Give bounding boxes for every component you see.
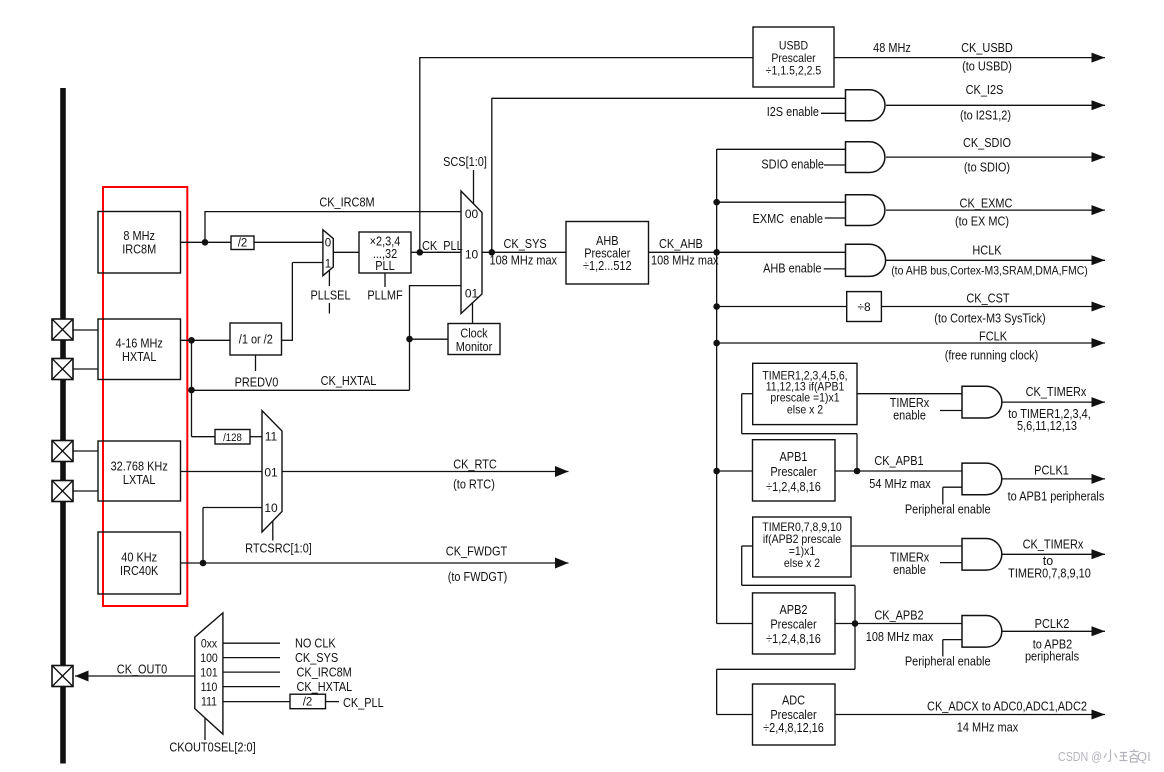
svg-text:Prescaler: Prescaler [770, 465, 816, 479]
svg-text:RTCSRC[1:0]: RTCSRC[1:0] [245, 542, 312, 556]
wire CK_ADCX [835, 714, 1105, 716]
svg-text:÷1,2...512: ÷1,2...512 [583, 259, 632, 273]
divider PREDV0 (/1 or /2) [230, 323, 282, 355]
wire HXTAL output [181, 339, 231, 341]
arrow PCLK2 [1092, 626, 1106, 636]
junction EXMC feed [713, 199, 720, 206]
wire CK_SYS riser to I2S gate [491, 98, 493, 252]
wire CK_USBD [834, 57, 1105, 59]
block APB1 Prescaler [753, 440, 836, 501]
junction CST feed [713, 303, 720, 310]
svg-text:100: 100 [200, 651, 218, 665]
wire LXTAL to /128 branch [191, 390, 193, 437]
svg-text:5,6,11,12,13: 5,6,11,12,13 [1017, 419, 1077, 433]
wire mux input CK_IRC8M [223, 671, 280, 673]
red highlight box around clock sources [103, 187, 187, 606]
svg-text:CK_PLL: CK_PLL [343, 696, 384, 710]
wire EXMC enable stub [825, 217, 846, 219]
svg-text:110: 110 [201, 680, 218, 694]
arrow CK_SDIO [1092, 152, 1106, 162]
svg-text:APB1: APB1 [780, 450, 808, 464]
wire /2 to PLLSEL mux input 0 [254, 241, 323, 243]
pin OSC32_IN (LXTAL) [52, 441, 73, 462]
wire CK_PLL to SCS mux input 10 [411, 251, 461, 253]
block PLL (x2,3,4...,32) [359, 232, 411, 273]
svg-text:8 MHz: 8 MHz [123, 229, 155, 243]
svg-text:SDIO enable: SDIO enable [761, 158, 824, 172]
divider /128 [215, 430, 250, 445]
svg-text:else x 2: else x 2 [784, 556, 820, 570]
svg-text:0: 0 [325, 238, 331, 250]
wire CK_I2S [886, 104, 1105, 106]
wire mux input NO CLK [223, 642, 280, 644]
wire mux input CK_SYS [223, 657, 280, 659]
gate AND EXMC [846, 195, 885, 226]
svg-text:14 MHz max: 14 MHz max [957, 721, 1019, 735]
svg-text:(to FWDGT): (to FWDGT) [448, 570, 508, 584]
wire CK_RTC [282, 471, 569, 473]
svg-text:AHB enable: AHB enable [763, 262, 821, 276]
junction IRC8M output [202, 239, 209, 246]
wire EXMC feed [717, 201, 846, 203]
svg-text:108 MHz max: 108 MHz max [490, 254, 558, 268]
svg-text:00: 00 [465, 207, 479, 221]
wire /2 to CK_PLL label [326, 701, 340, 703]
block APB2 Prescaler [753, 593, 836, 654]
mux RTCSRC [262, 411, 282, 532]
svg-text:108 MHz max: 108 MHz max [866, 630, 934, 644]
wire CK_IRC8M to SCS mux input 00 [205, 211, 461, 213]
wire CK_APB2 [835, 623, 962, 625]
wire CK_CST [881, 306, 1105, 308]
svg-text:01: 01 [264, 466, 278, 480]
svg-text:/2: /2 [238, 238, 248, 250]
divider /2 (IRC8M to PLL) [231, 236, 254, 250]
wire APB1 feed [717, 470, 753, 472]
svg-text:÷1,1.5,2,2.5: ÷1,1.5,2,2.5 [766, 64, 822, 78]
wire PCLK2 [1002, 630, 1106, 632]
svg-text:01: 01 [465, 287, 479, 301]
svg-text:FCLK: FCLK [979, 330, 1008, 344]
wire to clock monitor [410, 338, 449, 340]
svg-text:CK_USBD: CK_USBD [961, 41, 1013, 55]
svg-text:PLLSEL: PLLSEL [310, 289, 350, 303]
svg-text:Prescaler: Prescaler [770, 708, 816, 722]
gate AND PCLK2 [962, 616, 1002, 648]
svg-text:PREDV0: PREDV0 [235, 376, 279, 390]
signal stub PLLSEL lower [328, 303, 330, 314]
arrow CK_TIMERx (APB1) [1092, 397, 1106, 407]
svg-text:(to I2S1,2): (to I2S1,2) [960, 109, 1011, 123]
svg-text:CK_TIMERx: CK_TIMERx [1026, 385, 1087, 399]
svg-text:SCS[1:0]: SCS[1:0] [443, 155, 487, 169]
wire HCLK [886, 259, 1105, 261]
junction CK_APB1 [854, 468, 861, 475]
arrow PCLK1 [1092, 474, 1106, 484]
arrow CK_EXMC [1092, 205, 1106, 215]
svg-text:Peripheral enable: Peripheral enable [905, 503, 991, 517]
signal stub PLLMF [384, 273, 386, 287]
svg-text:CK_APB2: CK_APB2 [874, 609, 923, 623]
wire TIMER0 mult out [851, 545, 962, 547]
svg-text:CKOUT0SEL[2:0]: CKOUT0SEL[2:0] [169, 741, 255, 755]
wire CK_TIMERx (APB2) [1002, 553, 1106, 555]
svg-text:TIMER0,7,8,9,10: TIMER0,7,8,9,10 [1008, 566, 1091, 580]
block AHB Prescaler [566, 222, 649, 285]
wire I2S enable stub [821, 112, 846, 114]
svg-text:(to SDIO): (to SDIO) [964, 161, 1010, 175]
wire CK_HXTAL run [192, 389, 410, 391]
svg-text:CK_HXTAL: CK_HXTAL [297, 680, 353, 694]
svg-text:(to AHB bus,Cortex-M3,SRAM,DMA: (to AHB bus,Cortex-M3,SRAM,DMA,FMC) [891, 264, 1088, 278]
svg-text:IRC40K: IRC40K [120, 564, 159, 578]
svg-text:101: 101 [200, 666, 218, 680]
wire CK_HXTAL from junction [191, 340, 193, 390]
svg-text:108 MHz max: 108 MHz max [651, 254, 719, 268]
wire CK_OUT0 [75, 675, 195, 677]
svg-text:÷1,2,4,8,16: ÷1,2,4,8,16 [766, 480, 821, 494]
svg-text:PLLMF: PLLMF [367, 289, 403, 303]
svg-text:CK_IRC8M: CK_IRC8M [319, 196, 374, 210]
block Clock Monitor [448, 324, 500, 355]
svg-text:40 KHz: 40 KHz [121, 551, 157, 565]
wire OSC32_OUT stub [73, 490, 98, 492]
oscillator LXTAL (32.768 KHz) [98, 441, 181, 501]
arrow CK_FWDGT [555, 558, 569, 569]
junction CK_APB2 [852, 620, 859, 627]
wire AHB bus riser (vertical distribution) [716, 149, 718, 624]
mux SCS (system clock switch) [461, 191, 482, 314]
svg-text:÷2,4,8,12,16: ÷2,4,8,12,16 [763, 721, 824, 735]
gate AND TIMER APB2 [962, 539, 1002, 571]
svg-text:÷8: ÷8 [857, 300, 871, 314]
wire mux input CK_PLL/2 [223, 701, 290, 703]
svg-text:CK_OUT0: CK_OUT0 [117, 663, 167, 677]
gate AND AHB (HCLK) [846, 244, 886, 276]
wire PREDV0 out [282, 339, 294, 341]
arrow CK_USBD [1092, 53, 1106, 63]
pin OSC_OUT (HXTAL) [52, 359, 73, 380]
junction CK_AHB at bus [713, 249, 720, 256]
gate AND SDIO [846, 142, 885, 173]
wire PCLK1 [1002, 478, 1106, 480]
wire OSC_OUT stub [73, 368, 98, 370]
signal stub PLLSEL [328, 270, 330, 286]
divider /2 (CK_PLL out) [290, 694, 326, 709]
block TIMER1 multiplier (APB1 timers) [753, 363, 857, 424]
svg-text:APB2: APB2 [780, 603, 808, 617]
wire mux input CK_HXTAL [223, 686, 280, 688]
arrow FCLK [1092, 338, 1106, 348]
svg-text:CK_SDIO: CK_SDIO [963, 136, 1011, 150]
mux PLLSEL [323, 230, 333, 276]
block ADC Prescaler [753, 684, 836, 745]
wire SDIO feed [717, 148, 846, 150]
wire PLLSEL mux to PLL [333, 251, 359, 253]
wire /128 to RTC mux input 11 [250, 436, 262, 438]
oscillator IRC8M (8 MHz) [98, 212, 181, 274]
svg-text:4-16 MHz: 4-16 MHz [116, 337, 163, 351]
wire CK_EXMC [886, 209, 1105, 211]
arrow CK_CST [1092, 302, 1106, 312]
arrow HCLK [1092, 255, 1106, 265]
wire CK_TIMERx (APB1) [1002, 401, 1106, 403]
svg-text:CK_AHB: CK_AHB [659, 237, 703, 251]
wire LXTAL to RTC mux input 01 [181, 471, 263, 473]
svg-text:CK_FWDGT: CK_FWDGT [446, 545, 508, 559]
pin OSC32_OUT (LXTAL) [52, 481, 73, 502]
wire TIMERx enable stub (APB2) [940, 562, 962, 564]
svg-text:/1 or /2: /1 or /2 [239, 333, 273, 347]
svg-text:HCLK: HCLK [972, 244, 1002, 258]
wire TIMERx enable stub (APB1) [940, 410, 962, 412]
gate AND I2S [846, 90, 885, 121]
wire CK_SYS output [482, 251, 566, 253]
signal stub CKOUT0SEL [204, 718, 206, 740]
wire CK_APB1 [835, 470, 962, 472]
wire CK_APB1 loop to TIMER1 mult [856, 434, 858, 471]
arrow CK_RTC [555, 466, 569, 477]
wire CST feed [717, 306, 847, 308]
svg-text:/128: /128 [223, 432, 242, 444]
svg-text:CSDN @: CSDN @ [1058, 749, 1102, 764]
svg-text:Monitor: Monitor [456, 340, 493, 354]
oscillator IRC40K (40 KHz) [98, 532, 181, 594]
wire ADC feed from CK_APB2 [854, 624, 856, 670]
svg-text:peripherals: peripherals [1025, 650, 1079, 664]
signal stub SCS [473, 170, 475, 204]
svg-text:CK_CST: CK_CST [966, 292, 1010, 306]
svg-text:CK_SYS: CK_SYS [295, 651, 338, 665]
wire Peripheral enable stub (PCLK2) [943, 639, 962, 641]
watermark CSDN @xiaoqi QI [1058, 749, 1151, 764]
I/O pin rail (thick vertical bus) [60, 88, 66, 764]
junction FCLK feed [713, 340, 720, 347]
svg-text:to APB1 peripherals: to APB1 peripherals [1008, 490, 1105, 504]
wire CK_APB2 loop to TIMER0 mult [854, 585, 856, 623]
gate AND PCLK1 [962, 463, 1002, 495]
wire FCLK [717, 342, 1105, 344]
wire Peripheral enable stub (PCLK1) [943, 486, 962, 488]
svg-text:CK_HXTAL: CK_HXTAL [321, 374, 377, 388]
svg-text:Prescaler: Prescaler [770, 618, 816, 632]
svg-text:CK_APB1: CK_APB1 [874, 454, 923, 468]
wire OSC32_IN stub [73, 450, 98, 452]
svg-text:(to EX MC): (to EX MC) [955, 215, 1009, 229]
svg-text:CK_PLL: CK_PLL [422, 239, 463, 253]
svg-text:1: 1 [325, 259, 331, 271]
svg-text:CK_ADCX to ADC0,ADC1,ADC2: CK_ADCX to ADC0,ADC1,ADC2 [927, 700, 1087, 714]
junction IRC40K output [200, 560, 207, 567]
block TIMER0 multiplier (APB2 timers) [753, 517, 851, 577]
svg-text:CK_EXMC: CK_EXMC [960, 197, 1013, 211]
svg-text:enable: enable [893, 409, 926, 423]
svg-text:(to USBD): (to USBD) [962, 60, 1012, 74]
wire OSC_IN stub [73, 329, 98, 331]
gate AND TIMER APB1 [962, 386, 1002, 418]
svg-text:PLL: PLL [375, 259, 395, 273]
svg-text:10: 10 [264, 501, 278, 515]
svg-text:CK_IRC8M: CK_IRC8M [297, 666, 352, 680]
svg-text:CK_I2S: CK_I2S [966, 83, 1004, 97]
svg-text:LXTAL: LXTAL [123, 473, 156, 487]
svg-text:NO CLK: NO CLK [295, 637, 336, 651]
svg-text:48 MHz: 48 MHz [873, 41, 911, 55]
arrow CK_ADCX [1092, 710, 1106, 720]
wire SCS mux to clock monitor [472, 303, 474, 324]
svg-text:HXTAL: HXTAL [122, 350, 156, 364]
pin OSC_IN (HXTAL) [52, 319, 73, 340]
wire CK_PLL riser to USBD prescaler [419, 57, 421, 252]
svg-text:÷1,2,4,8,16: ÷1,2,4,8,16 [766, 632, 821, 646]
junction clock monitor tap [406, 336, 413, 343]
wire SDIO enable stub [824, 164, 846, 166]
svg-text:Clock: Clock [460, 327, 488, 341]
junction CK_PLL [417, 249, 424, 256]
svg-text:CK_RTC: CK_RTC [453, 458, 497, 472]
wire CK_IRC8M riser [204, 211, 206, 242]
svg-text:QI: QI [1137, 749, 1151, 764]
wire CK_SDIO [886, 156, 1105, 158]
divider /8 (SysTick) [847, 292, 882, 322]
signal stub RTCSRC [272, 521, 274, 541]
svg-text:Peripheral enable: Peripheral enable [905, 655, 991, 669]
junction HXTAL output [188, 337, 195, 344]
wire IRC8M output [181, 241, 232, 243]
svg-text:11: 11 [265, 430, 278, 444]
wire CK_AHB [649, 251, 846, 253]
junction CK_HXTAL [188, 387, 195, 394]
svg-text:CK_SYS: CK_SYS [504, 237, 547, 251]
pin CK_OUT0 [52, 666, 73, 687]
svg-text:(to Cortex-M3 SysTick): (to Cortex-M3 SysTick) [934, 312, 1045, 326]
arrow CK_I2S [1092, 100, 1106, 110]
arrow CK_OUT0 (to pin) [75, 671, 89, 682]
wire AHB enable stub [824, 268, 846, 270]
wire TIMER1 mult out [857, 393, 962, 395]
svg-text:0xx: 0xx [201, 637, 217, 651]
arrow CK_TIMERx (APB2) [1092, 549, 1106, 559]
svg-text:I2S enable: I2S enable [767, 105, 819, 119]
block USBD Prescaler [753, 27, 834, 87]
wire APB2 feed [717, 623, 753, 625]
svg-text:54 MHz max: 54 MHz max [869, 477, 931, 491]
oscillator HXTAL (4-16 MHz) [98, 319, 181, 380]
svg-text:ADC: ADC [782, 694, 805, 708]
svg-text:(free running clock): (free running clock) [945, 349, 1039, 363]
svg-text:/2: /2 [303, 697, 313, 709]
svg-text:IRC8M: IRC8M [122, 243, 156, 257]
svg-text:(to RTC): (to RTC) [453, 478, 495, 492]
svg-text:enable: enable [893, 563, 926, 577]
svg-text:10: 10 [465, 248, 479, 262]
junction CK_SYS [489, 249, 496, 256]
svg-text:EXMC enable: EXMC enable [753, 212, 824, 226]
svg-text:PCLK2: PCLK2 [1035, 617, 1070, 631]
svg-text:PCLK1: PCLK1 [1034, 464, 1069, 478]
svg-text:32.768 KHz: 32.768 KHz [111, 460, 168, 474]
wire IRC40K output / CK_FWDGT [181, 562, 569, 564]
mux CKOUT0SEL [195, 613, 223, 734]
svg-text:CK_TIMERx: CK_TIMERx [1023, 538, 1084, 552]
svg-text:111: 111 [201, 695, 217, 709]
junction APB1 feed [713, 468, 720, 475]
wire IRC40K to RTC mux input 10 [202, 508, 204, 564]
svg-text:else x 2: else x 2 [787, 403, 823, 417]
signal stub PREDV0 [255, 355, 257, 371]
